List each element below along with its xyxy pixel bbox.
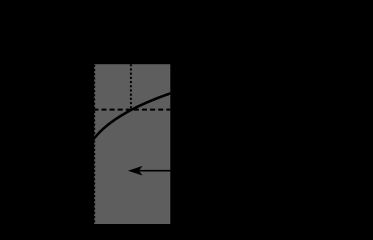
arrow head (stealth, pointing left) <box>129 167 141 175</box>
dotted vertical guide line <box>130 64 132 109</box>
dashed horizontal guide line <box>93 109 170 111</box>
arrow shaft <box>138 170 171 172</box>
curve (concave production/supply curve) <box>91 93 173 143</box>
shaded region (gray rectangle) <box>94 64 170 224</box>
dotted vertical line (left edge axis) <box>93 65 95 224</box>
